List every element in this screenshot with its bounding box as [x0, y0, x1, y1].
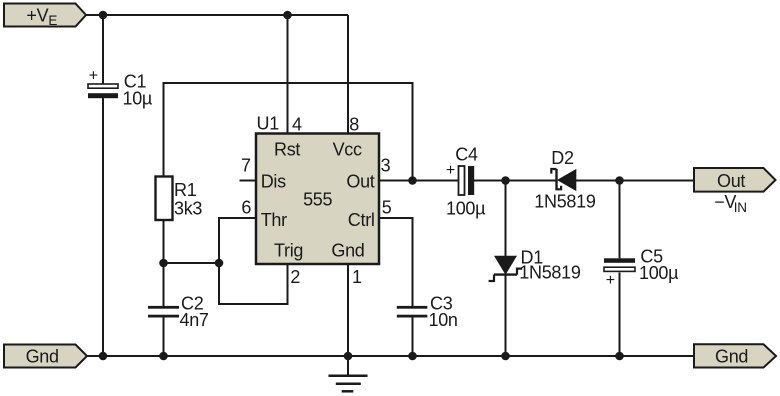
- Gnd label left: [4, 345, 87, 368]
- node bottom rail C5: [615, 352, 624, 361]
- svg-text:+V: +V: [26, 6, 48, 26]
- wire left rail upper (+VE to C1): [102, 15, 104, 84]
- wire D1 branch upper: [505, 181, 507, 257]
- resistor R1: [156, 177, 203, 221]
- svg-text:1N5819: 1N5819: [534, 192, 596, 212]
- svg-text:555: 555: [303, 190, 332, 210]
- svg-text:Rst: Rst: [274, 140, 300, 160]
- capacitor C2: [148, 294, 209, 330]
- svg-text:4: 4: [292, 114, 302, 134]
- node bottom rail pin1: [344, 352, 353, 361]
- capacitor C1: [88, 68, 152, 109]
- svg-text:C4: C4: [455, 145, 478, 165]
- Out output label: [694, 168, 776, 192]
- wire Out line segment 2: [474, 180, 557, 182]
- svg-text:E: E: [48, 13, 57, 28]
- svg-text:100µ: 100µ: [639, 263, 678, 283]
- capacitor C4: [446, 145, 485, 219]
- wire top rail: [86, 14, 348, 16]
- svg-text:+: +: [446, 162, 455, 179]
- node bottom rail left: [99, 352, 108, 361]
- svg-text:8: 8: [349, 114, 359, 134]
- node at +VE rail: [99, 11, 108, 20]
- wire left rail lower (C1 to bottom rail): [102, 98, 104, 356]
- wire Trig loop: [219, 263, 288, 304]
- svg-text:+: +: [606, 272, 615, 289]
- ground symbol: [329, 356, 368, 391]
- svg-text:100µ: 100µ: [446, 199, 485, 219]
- capacitor C5: [604, 247, 678, 290]
- wire pin4 drop: [287, 15, 289, 134]
- svg-text:1: 1: [352, 267, 362, 287]
- diode D1: [489, 247, 581, 282]
- wire Ctrl to C3: [379, 218, 413, 306]
- svg-text:R1: R1: [174, 180, 197, 200]
- svg-text:Ctrl: Ctrl: [348, 210, 375, 230]
- IC U1 555 body: [256, 134, 379, 265]
- svg-text:Vcc: Vcc: [333, 140, 362, 160]
- svg-text:D2: D2: [551, 148, 574, 168]
- svg-text:Thr: Thr: [261, 210, 287, 230]
- node Thr-Trig junction: [215, 259, 224, 268]
- node feedback-Out junction: [408, 176, 417, 185]
- svg-text:1N5819: 1N5819: [519, 263, 581, 283]
- svg-text:U1: U1: [257, 114, 280, 134]
- svg-text:+: +: [89, 68, 98, 85]
- wire node row to C2: [163, 263, 165, 306]
- node bottom rail C3: [408, 352, 417, 361]
- node at pin4 top rail: [283, 11, 292, 20]
- node label -VIN: [714, 192, 747, 215]
- svg-text:Gnd: Gnd: [26, 346, 59, 366]
- capacitor C3: [397, 294, 458, 330]
- svg-text:Out: Out: [717, 171, 745, 191]
- wire Dis stub: [240, 180, 257, 182]
- wire C5 branch upper: [619, 181, 621, 259]
- svg-text:6: 6: [241, 198, 251, 218]
- node bottom rail D1: [501, 352, 510, 361]
- svg-text:Out: Out: [346, 172, 374, 192]
- wire pin8 drop: [347, 15, 349, 134]
- svg-text:2: 2: [290, 267, 300, 287]
- node bottom rail C2: [159, 352, 168, 361]
- node R1-C2 junction: [159, 259, 168, 268]
- svg-text:5: 5: [382, 198, 392, 218]
- +VE supply label: [4, 4, 86, 28]
- wire C3 to bottom rail: [412, 318, 414, 357]
- wire D1 branch lower: [505, 275, 507, 356]
- diode D2: [534, 148, 596, 211]
- svg-text:3k3: 3k3: [174, 199, 202, 219]
- Gnd label right: [694, 344, 776, 367]
- wire feedback R1-top to Out: [164, 83, 413, 181]
- svg-text:Trig: Trig: [274, 240, 303, 260]
- svg-text:IN: IN: [734, 200, 747, 215]
- wire bottom rail: [87, 355, 694, 357]
- wire pin1 Gnd drop: [347, 264, 349, 356]
- wire C2 to bottom rail: [163, 318, 165, 357]
- wire Out line segment 3: [576, 180, 694, 182]
- node C4-D1 junction: [501, 176, 510, 185]
- wire Thr: [219, 218, 256, 263]
- svg-text:3: 3: [381, 156, 391, 176]
- svg-text:Gnd: Gnd: [331, 240, 364, 260]
- wire Out line segment 1: [379, 180, 459, 182]
- wire C5 branch lower: [619, 273, 621, 357]
- svg-text:10n: 10n: [429, 310, 458, 330]
- svg-text:10µ: 10µ: [123, 88, 153, 108]
- svg-text:Gnd: Gnd: [715, 346, 748, 366]
- wire R1 bottom to node: [163, 220, 165, 263]
- svg-text:7: 7: [241, 156, 251, 176]
- svg-text:Dis: Dis: [261, 172, 286, 192]
- wire node horizontal 163-219: [164, 262, 220, 264]
- svg-text:4n7: 4n7: [180, 310, 209, 330]
- node D2-C5 junction: [615, 176, 624, 185]
